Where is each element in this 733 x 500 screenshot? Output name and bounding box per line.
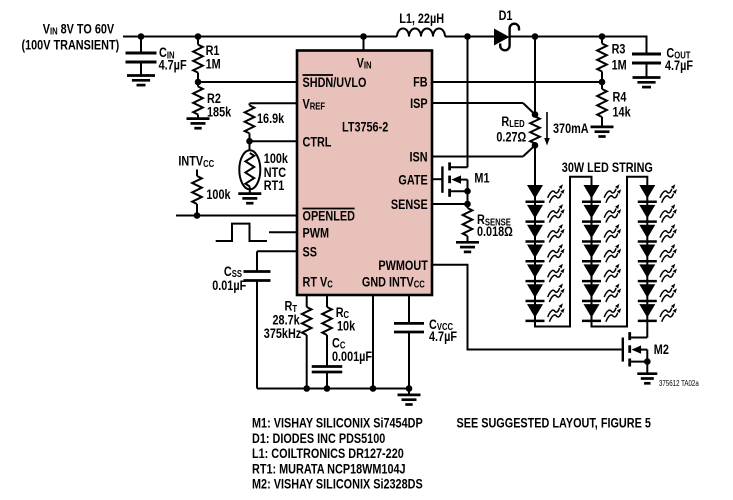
svg-text:L1, 22µH: L1, 22µH — [399, 11, 444, 27]
svg-text:RT1: RT1 — [264, 177, 285, 193]
svg-text:(100V TRANSIENT): (100V TRANSIENT) — [22, 37, 120, 53]
svg-text:D1: D1 — [499, 8, 513, 24]
svg-text:M1: M1 — [474, 170, 489, 186]
svg-text:ISP: ISP — [410, 96, 427, 112]
svg-text:ISN: ISN — [410, 149, 428, 165]
svg-text:370mA: 370mA — [553, 121, 589, 137]
svg-text:PWM: PWM — [303, 225, 330, 241]
svg-text:1M: 1M — [612, 57, 627, 73]
svg-text:0.001µF: 0.001µF — [332, 349, 372, 365]
svg-text:SHDN/UVLO: SHDN/UVLO — [303, 75, 367, 91]
svg-text:0.27Ω: 0.27Ω — [496, 129, 526, 145]
svg-text:RT1: MURATA NCP18WM104J: RT1: MURATA NCP18WM104J — [252, 461, 406, 477]
svg-text:R3: R3 — [612, 41, 626, 57]
svg-text:16.9k: 16.9k — [257, 111, 284, 127]
svg-text:R4: R4 — [613, 89, 627, 105]
svg-text:CTRL: CTRL — [303, 134, 332, 150]
svg-text:M2: M2 — [654, 342, 669, 358]
svg-text:PWMOUT: PWMOUT — [378, 258, 428, 274]
svg-text:SENSE: SENSE — [391, 197, 428, 213]
svg-text:D1: DIODES INC PDS5100: D1: DIODES INC PDS5100 — [252, 431, 385, 447]
svg-text:14k: 14k — [613, 104, 631, 120]
svg-text:4.7µF: 4.7µF — [429, 328, 457, 344]
svg-text:375612 TA02a: 375612 TA02a — [659, 379, 699, 388]
svg-text:SS: SS — [303, 244, 317, 260]
svg-text:0.018Ω: 0.018Ω — [477, 223, 513, 239]
svg-text:185k: 185k — [207, 104, 231, 120]
svg-text:30W LED STRING: 30W LED STRING — [562, 160, 653, 176]
svg-text:L1: COILTRONICS DR127-220: L1: COILTRONICS DR127-220 — [252, 446, 404, 462]
svg-text:0.01µF: 0.01µF — [212, 278, 246, 294]
svg-text:FB: FB — [413, 74, 427, 90]
svg-text:10k: 10k — [337, 318, 355, 334]
svg-text:SEE SUGGESTED LAYOUT, FIGURE 5: SEE SUGGESTED LAYOUT, FIGURE 5 — [457, 415, 651, 431]
svg-text:M1: VISHAY SILICONIX Si7454DP: M1: VISHAY SILICONIX Si7454DP — [252, 415, 423, 431]
svg-text:M2: VISHAY SILICONIX Si2328DS: M2: VISHAY SILICONIX Si2328DS — [252, 476, 423, 492]
svg-text:100k: 100k — [206, 187, 230, 203]
svg-text:4.7µF: 4.7µF — [665, 58, 693, 74]
svg-text:GATE: GATE — [398, 172, 427, 188]
svg-text:4.7µF: 4.7µF — [159, 57, 187, 73]
svg-text:1M: 1M — [206, 56, 221, 72]
svg-text:LT3756-2: LT3756-2 — [342, 119, 388, 135]
svg-text:OPENLED: OPENLED — [303, 208, 355, 224]
svg-text:375kHz: 375kHz — [264, 326, 301, 342]
